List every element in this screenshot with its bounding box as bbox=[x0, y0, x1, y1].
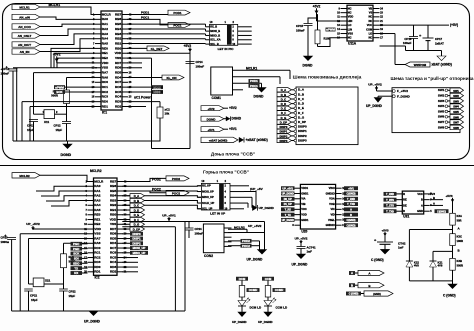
svg-text:AN_IIN: AN_IIN bbox=[20, 50, 30, 54]
svg-text:RC0: RC0 bbox=[94, 246, 100, 250]
svg-text:SCL_B: SCL_B bbox=[210, 42, 219, 46]
svg-text:1мF: 1мF bbox=[307, 250, 313, 254]
svg-text:UP_+5V1: UP_+5V1 bbox=[282, 187, 293, 190]
svg-text:SCL_UP: SCL_UP bbox=[202, 207, 213, 211]
svg-text:C(GND): C(GND) bbox=[347, 193, 356, 196]
svg-text:VSS: VSS bbox=[115, 56, 121, 60]
svg-text:RD4: RD4 bbox=[110, 241, 116, 245]
svg-text:15pF: 15pF bbox=[31, 298, 38, 302]
svg-text:RC2: RC2 bbox=[94, 255, 100, 259]
svg-text:SW3: SW3 bbox=[438, 99, 445, 103]
svg-text:VOA: VOA bbox=[329, 197, 335, 201]
svg-text:W05POM: W05POM bbox=[414, 63, 427, 67]
svg-text:RC7: RC7 bbox=[110, 246, 116, 250]
svg-text:SW8: SW8 bbox=[453, 126, 459, 130]
svg-text:DISP3: DISP3 bbox=[298, 138, 307, 142]
svg-text:D_B: D_B bbox=[298, 92, 305, 96]
svg-text:RB2: RB2 bbox=[115, 37, 121, 41]
svg-text:RE0: RE0 bbox=[94, 213, 100, 217]
svg-text:IC1: IC1 bbox=[102, 110, 107, 114]
svg-text:+xBAT (xGND): +xBAT (xGND) bbox=[246, 138, 268, 142]
svg-text:LIN: LIN bbox=[348, 27, 352, 31]
svg-text:300R: 300R bbox=[457, 264, 464, 268]
svg-text:RB4: RB4 bbox=[115, 27, 121, 31]
svg-text:PGC: PGC bbox=[73, 242, 79, 246]
svg-text:NC: NC bbox=[368, 15, 372, 19]
svg-text:C(GND): C(GND) bbox=[347, 219, 356, 222]
svg-text:B: B bbox=[433, 196, 435, 200]
svg-text:15pF: 15pF bbox=[56, 128, 63, 132]
svg-text:RA0: RA0 bbox=[102, 17, 108, 21]
svg-text:AN_IOUT: AN_IOUT bbox=[18, 43, 31, 47]
svg-text:VIA: VIA bbox=[301, 197, 305, 201]
svg-text:(GND): (GND) bbox=[373, 292, 381, 296]
svg-text:RC6: RC6 bbox=[115, 85, 121, 89]
svg-text:RA1: RA1 bbox=[102, 22, 108, 26]
svg-text:DISP1: DISP1 bbox=[280, 130, 288, 134]
svg-text:SW4: SW4 bbox=[453, 105, 459, 109]
svg-text:15pF: 15pF bbox=[69, 294, 76, 298]
svg-text:POD1: POD1 bbox=[173, 11, 181, 15]
svg-text:RC0: RC0 bbox=[102, 80, 108, 84]
svg-text:DGND: DGND bbox=[232, 117, 242, 121]
svg-text:POC2: POC2 bbox=[242, 244, 250, 248]
svg-text:VDD: VDD bbox=[110, 217, 117, 221]
svg-text:CP22: CP22 bbox=[69, 290, 77, 294]
svg-text:CON2: CON2 bbox=[204, 254, 213, 258]
svg-text:CCM LD: CCM LD bbox=[276, 306, 288, 310]
svg-text:RE1: RE1 bbox=[94, 217, 100, 221]
svg-text:RD0: RD0 bbox=[94, 265, 100, 269]
svg-text:D: D bbox=[403, 209, 405, 213]
svg-text:D_C: D_C bbox=[298, 97, 305, 101]
svg-text:+5V3: +5V3 bbox=[428, 192, 435, 196]
svg-text:GND2O: GND2O bbox=[326, 223, 335, 227]
svg-text:VSS: VSS bbox=[110, 222, 116, 226]
svg-text:D_A: D_A bbox=[281, 88, 286, 92]
svg-text:D_C: D_C bbox=[134, 204, 139, 208]
svg-text:RA5: RA5 bbox=[102, 41, 108, 45]
svg-text:X21: X21 bbox=[45, 279, 51, 283]
svg-text:UP_DGND: UP_DGND bbox=[232, 320, 247, 324]
svg-text:UP_+5V2: UP_+5V2 bbox=[248, 224, 262, 228]
svg-text:POD1: POD1 bbox=[141, 11, 149, 15]
svg-text:RC3: RC3 bbox=[102, 95, 108, 99]
svg-text:DISP1: DISP1 bbox=[132, 237, 141, 241]
svg-text:SW7: SW7 bbox=[453, 121, 459, 125]
svg-text:SW4: SW4 bbox=[438, 104, 445, 108]
svg-text:RB3: RB3 bbox=[110, 198, 116, 202]
svg-text:RB3: RB3 bbox=[115, 32, 121, 36]
svg-text:UP_DGND: UP_DGND bbox=[366, 104, 383, 108]
svg-text:RB0: RB0 bbox=[110, 213, 116, 217]
svg-text:VDD: VDD bbox=[348, 15, 354, 19]
svg-text:DCMR: DCMR bbox=[249, 288, 258, 292]
svg-text:RD5: RD5 bbox=[110, 236, 116, 240]
svg-text:RA4: RA4 bbox=[102, 37, 108, 41]
svg-text:SW2: SW2 bbox=[438, 94, 445, 98]
svg-text:RD1: RD1 bbox=[102, 104, 108, 108]
svg-text:+5V1: +5V1 bbox=[207, 128, 214, 132]
svg-text:K3B: K3B bbox=[457, 259, 462, 263]
svg-text:UP_+5V2: UP_+5V2 bbox=[295, 236, 308, 240]
svg-text:B: B bbox=[351, 283, 353, 287]
svg-text:CP16: CP16 bbox=[404, 37, 412, 41]
svg-text:RD2: RD2 bbox=[110, 270, 116, 274]
svg-text:100мF: 100мF bbox=[403, 41, 412, 45]
svg-text:MCLR1: MCLR1 bbox=[19, 6, 30, 10]
svg-text:SW3: SW3 bbox=[453, 99, 459, 103]
svg-text:POD2: POD2 bbox=[152, 178, 161, 182]
svg-text:RB6: RB6 bbox=[110, 184, 116, 188]
svg-text:CP15: CP15 bbox=[296, 24, 304, 28]
svg-text:T_TX: T_TX bbox=[285, 214, 291, 217]
svg-text:F_DGND: F_DGND bbox=[397, 94, 411, 98]
svg-text:RC1: RC1 bbox=[94, 251, 100, 255]
svg-text:RA3: RA3 bbox=[94, 198, 100, 202]
svg-text:RC1: RC1 bbox=[102, 85, 108, 89]
svg-text:SW1: SW1 bbox=[438, 88, 445, 92]
svg-text:Доња плоча "ССВ": Доња плоча "ССВ" bbox=[211, 152, 255, 157]
svg-text:RB7: RB7 bbox=[115, 12, 121, 16]
svg-text:B: B bbox=[421, 198, 423, 202]
svg-text:+5V1: +5V1 bbox=[229, 127, 237, 131]
svg-text:K3A: K3A bbox=[457, 214, 462, 218]
svg-text:VISO: VISO bbox=[329, 186, 335, 190]
svg-text:D_E: D_E bbox=[134, 213, 139, 217]
svg-text:RE1: RE1 bbox=[102, 51, 108, 55]
svg-text:COM: COM bbox=[366, 27, 372, 31]
svg-text:RB1: RB1 bbox=[110, 208, 116, 212]
svg-text:D_B: D_B bbox=[281, 93, 286, 97]
svg-text:SW7: SW7 bbox=[438, 120, 445, 124]
svg-text:VSEL: VSEL bbox=[328, 218, 335, 222]
svg-text:BCK: BCK bbox=[56, 90, 63, 94]
svg-text:POC1: POC1 bbox=[250, 84, 258, 88]
svg-text:RC5: RC5 bbox=[115, 90, 121, 94]
svg-text:RE2: RE2 bbox=[102, 56, 108, 60]
svg-text:4V8: 4V8 bbox=[438, 264, 443, 268]
svg-text:NC: NC bbox=[368, 36, 372, 40]
svg-text:uC1 Power: uC1 Power bbox=[134, 96, 152, 100]
svg-text:UP_DGND: UP_DGND bbox=[84, 320, 101, 324]
svg-text:D_G: D_G bbox=[134, 223, 140, 227]
svg-text:VCC: VCC bbox=[367, 23, 373, 27]
svg-text:RC4: RC4 bbox=[115, 95, 121, 99]
svg-text:DISP3: DISP3 bbox=[280, 139, 288, 143]
svg-text:CP12: CP12 bbox=[54, 124, 62, 128]
svg-text:RD4: RD4 bbox=[115, 75, 121, 79]
svg-text:RB5: RB5 bbox=[115, 22, 121, 26]
svg-text:D_G: D_G bbox=[298, 115, 305, 119]
svg-text:D_D: D_D bbox=[134, 208, 139, 212]
svg-text:CCMR: CCMR bbox=[275, 288, 284, 292]
svg-text:MCLR2: MCLR2 bbox=[19, 174, 30, 178]
svg-text:C (GND): C (GND) bbox=[443, 294, 456, 298]
svg-text:RC3: RC3 bbox=[94, 260, 100, 264]
svg-text:SCL_KA: SCL_KA bbox=[210, 38, 221, 42]
svg-text:+5V1: +5V1 bbox=[348, 187, 354, 190]
svg-text:SW1: SW1 bbox=[453, 89, 459, 93]
svg-text:SW8: SW8 bbox=[438, 125, 445, 129]
svg-text:SW2: SW2 bbox=[453, 94, 459, 98]
svg-text:D_E: D_E bbox=[281, 107, 286, 111]
svg-text:100мF: 100мF bbox=[195, 231, 204, 235]
svg-text:PGD: PGD bbox=[73, 247, 79, 251]
svg-text:100мF: 100мF bbox=[1, 72, 10, 76]
svg-text:LO: LO bbox=[369, 31, 373, 35]
svg-text:UP_DGND: UP_DGND bbox=[292, 263, 309, 267]
svg-text:K3C: K3C bbox=[457, 234, 462, 238]
svg-text:1мF: 1мF bbox=[398, 246, 404, 250]
svg-text:1000м: 1000м bbox=[1, 240, 9, 244]
svg-text:D_G: D_G bbox=[281, 116, 287, 120]
svg-text:DGND: DGND bbox=[207, 117, 217, 121]
svg-text:F_+5V2: F_+5V2 bbox=[397, 89, 408, 93]
svg-text:D_D: D_D bbox=[298, 102, 305, 106]
svg-text:DISP1: DISP1 bbox=[298, 129, 307, 133]
svg-text:RD3: RD3 bbox=[115, 100, 121, 104]
svg-text:Шема повезивања дисплеја: Шема повезивања дисплеја bbox=[293, 75, 362, 81]
svg-text:DISP0: DISP0 bbox=[280, 125, 288, 129]
svg-text:RA1: RA1 bbox=[94, 189, 100, 193]
svg-text:AN_uIN: AN_uIN bbox=[19, 16, 30, 20]
svg-text:100мF: 100мF bbox=[196, 64, 205, 68]
svg-text:DISP2: DISP2 bbox=[132, 241, 141, 245]
svg-text:D_A: D_A bbox=[298, 88, 305, 92]
svg-text:CP14: CP14 bbox=[196, 60, 204, 64]
svg-text:T_TXD: T_TXD bbox=[386, 210, 394, 213]
svg-text:GND1: GND1 bbox=[301, 191, 309, 195]
svg-text:100мF: 100мF bbox=[296, 28, 305, 32]
svg-text:MCLR: MCLR bbox=[102, 12, 112, 16]
svg-text:POC1: POC1 bbox=[141, 16, 149, 20]
svg-text:D_DP: D_DP bbox=[298, 120, 306, 124]
svg-text:RA7: RA7 bbox=[94, 236, 100, 240]
svg-text:VSS: VSS bbox=[94, 232, 100, 236]
svg-text:KL_DET: KL_DET bbox=[151, 47, 163, 51]
svg-text:A: A bbox=[433, 202, 435, 206]
svg-text:RA0: RA0 bbox=[94, 184, 100, 188]
svg-text:LET IN UP: LET IN UP bbox=[210, 212, 225, 216]
svg-text:MCLR: MCLR bbox=[94, 179, 104, 183]
svg-text:MCLR1: MCLR1 bbox=[246, 66, 257, 70]
svg-text:DISP0: DISP0 bbox=[132, 232, 141, 236]
svg-text:VIB: VIB bbox=[301, 202, 305, 206]
svg-text:D_C: D_C bbox=[281, 97, 286, 101]
svg-text:T_CTS: T_CTS bbox=[386, 205, 394, 208]
svg-text:UP_DGND: UP_DGND bbox=[247, 257, 264, 261]
svg-text:SW5: SW5 bbox=[453, 110, 459, 114]
svg-text:SCK: SCK bbox=[73, 252, 80, 256]
svg-text:RE0: RE0 bbox=[102, 46, 108, 50]
svg-text:COM1: COM1 bbox=[212, 96, 222, 100]
svg-text:UP_DGND: UP_DGND bbox=[282, 219, 294, 222]
svg-text:RA2: RA2 bbox=[102, 27, 108, 31]
svg-text:T_RXD: T_RXD bbox=[386, 193, 394, 196]
svg-text:VDD: VDD bbox=[94, 227, 101, 231]
svg-text:UP_+5V1: UP_+5V1 bbox=[162, 213, 176, 217]
svg-text:D_A: D_A bbox=[134, 194, 139, 198]
svg-text:GND: GND bbox=[417, 209, 423, 213]
svg-text:RA3: RA3 bbox=[102, 32, 108, 36]
svg-text:KL_ON: KL_ON bbox=[166, 76, 176, 80]
svg-text:LO: LO bbox=[348, 23, 352, 27]
svg-text:MCLR2: MCLR2 bbox=[234, 225, 245, 229]
svg-text:T_TXD: T_TXD bbox=[347, 203, 355, 206]
svg-text:C (GND): C (GND) bbox=[371, 258, 384, 262]
svg-text:D_E: D_E bbox=[298, 106, 304, 110]
svg-text:uPWM: uPWM bbox=[55, 85, 64, 89]
svg-text:UP_+5V2: UP_+5V2 bbox=[368, 82, 382, 86]
svg-text:MOSI_UP: MOSI_UP bbox=[202, 189, 214, 193]
svg-text:MOSI_UP: MOSI_UP bbox=[133, 246, 146, 250]
svg-text:RA2: RA2 bbox=[94, 194, 100, 198]
svg-text:UP_DGND: UP_DGND bbox=[258, 320, 273, 324]
svg-text:DISP2: DISP2 bbox=[298, 134, 307, 138]
svg-text:POD2: POD2 bbox=[172, 177, 180, 181]
svg-text:RD2: RD2 bbox=[115, 104, 121, 108]
svg-text:DGND: DGND bbox=[303, 64, 313, 68]
svg-text:AN_CCO: AN_CCO bbox=[18, 25, 31, 29]
svg-text:C (GND): C (GND) bbox=[349, 293, 359, 296]
svg-text:CP21: CP21 bbox=[30, 294, 38, 298]
svg-text:VOD: VOD bbox=[301, 213, 307, 217]
svg-text:T_RTS: T_RTS bbox=[386, 199, 394, 202]
svg-text:RD1: RD1 bbox=[94, 270, 100, 274]
svg-text:RC5: RC5 bbox=[110, 255, 116, 259]
svg-text:AN_CNLT: AN_CNLT bbox=[18, 34, 32, 38]
svg-text:VID: VID bbox=[330, 213, 334, 217]
svg-text:RC7: RC7 bbox=[115, 80, 121, 84]
svg-text:C(GND): C(GND) bbox=[347, 224, 356, 227]
svg-text:RC2: RC2 bbox=[102, 90, 108, 94]
svg-text:uPWM: uPWM bbox=[326, 28, 335, 32]
svg-text:POD2: POD2 bbox=[242, 239, 250, 243]
svg-text:GND2O: GND2O bbox=[326, 191, 335, 195]
svg-text:+CP13: +CP13 bbox=[1, 67, 10, 71]
svg-text:T_RXD: T_RXD bbox=[347, 198, 355, 201]
svg-text:UP_DGND: UP_DGND bbox=[259, 206, 275, 210]
svg-text:RD7: RD7 bbox=[110, 227, 116, 231]
svg-text:+5V2: +5V2 bbox=[229, 106, 237, 110]
svg-text:NC: NC bbox=[348, 6, 352, 10]
svg-text:DCM: DCM bbox=[239, 277, 246, 281]
svg-text:RB5: RB5 bbox=[110, 189, 116, 193]
svg-text:RE: RE bbox=[403, 198, 407, 202]
svg-text:D_DP: D_DP bbox=[133, 227, 140, 231]
svg-text:DISP0: DISP0 bbox=[298, 125, 307, 129]
svg-text:MISO_B: MISO_B bbox=[210, 33, 220, 37]
svg-text:NC: NC bbox=[348, 36, 352, 40]
svg-text:RA6: RA6 bbox=[94, 241, 100, 245]
svg-text:U20: U20 bbox=[301, 229, 307, 233]
svg-text:TX: TX bbox=[74, 266, 78, 270]
svg-text:VOB: VOB bbox=[329, 202, 335, 206]
svg-text:X11: X11 bbox=[44, 120, 49, 124]
svg-text:POD1: POD1 bbox=[250, 79, 258, 83]
svg-text:RC4: RC4 bbox=[110, 260, 116, 264]
svg-text:+5V2: +5V2 bbox=[207, 107, 214, 111]
svg-text:VB: VB bbox=[369, 6, 373, 10]
svg-text:LET IN PIC: LET IN PIC bbox=[218, 47, 235, 51]
svg-text:D_F: D_F bbox=[281, 111, 286, 115]
svg-text:VDD1: VDD1 bbox=[301, 186, 308, 190]
svg-text:T_RX: T_RX bbox=[285, 209, 292, 212]
svg-text:VSS: VSS bbox=[102, 66, 108, 70]
svg-text:IC2: IC2 bbox=[95, 276, 100, 280]
svg-text:VIC: VIC bbox=[330, 207, 334, 211]
svg-text:DGND: DGND bbox=[61, 153, 72, 157]
svg-text:CP17: CP17 bbox=[435, 37, 443, 41]
svg-text:10k: 10k bbox=[165, 112, 170, 116]
svg-text:RX_B: RX_B bbox=[210, 25, 217, 29]
svg-text:RD6: RD6 bbox=[115, 66, 121, 70]
svg-text:(+5V): (+5V) bbox=[450, 23, 458, 27]
svg-text:+5V3: +5V3 bbox=[381, 228, 388, 232]
svg-text:MOSI_B: MOSI_B bbox=[210, 29, 220, 33]
svg-text:DGND: DGND bbox=[254, 95, 264, 99]
svg-text:RD3: RD3 bbox=[110, 265, 116, 269]
svg-text:UP_+5V2: UP_+5V2 bbox=[26, 222, 40, 226]
svg-text:VCC: VCC bbox=[417, 192, 423, 196]
svg-text:MISO_UP: MISO_UP bbox=[202, 195, 214, 199]
svg-text:SW6: SW6 bbox=[453, 115, 459, 119]
svg-text:U31: U31 bbox=[403, 214, 409, 218]
svg-text:RC6: RC6 bbox=[110, 251, 116, 255]
svg-text:xBAT (xGND): xBAT (xGND) bbox=[432, 63, 452, 67]
svg-text:RD0: RD0 bbox=[102, 100, 108, 104]
svg-text:30R: 30R bbox=[457, 218, 462, 222]
svg-text:CCM: CCM bbox=[265, 277, 272, 281]
svg-text:D_DP: D_DP bbox=[280, 120, 287, 124]
svg-text:D_D: D_D bbox=[281, 102, 286, 106]
svg-text:+5V2: +5V2 bbox=[313, 5, 321, 9]
svg-text:D0_UP: D0_UP bbox=[284, 198, 292, 201]
svg-text:R10B: R10B bbox=[324, 37, 331, 41]
svg-text:VDD: VDD bbox=[102, 61, 109, 65]
svg-text:(UP_+5V: (UP_+5V bbox=[250, 187, 264, 191]
svg-text:RA5: RA5 bbox=[94, 208, 100, 212]
svg-text:R: R bbox=[403, 192, 405, 196]
svg-text:B: B bbox=[350, 214, 352, 217]
svg-text:RB1: RB1 bbox=[115, 41, 121, 45]
svg-text:U11A: U11A bbox=[348, 41, 357, 45]
svg-text:VSS: VSS bbox=[348, 31, 353, 35]
svg-text:GND1: GND1 bbox=[301, 218, 309, 222]
svg-text:MISO_UP: MISO_UP bbox=[133, 251, 146, 255]
svg-text:RX_UP: RX_UP bbox=[202, 184, 211, 188]
svg-text:C(GND): C(GND) bbox=[437, 210, 446, 213]
svg-text:+xBAT (xGND): +xBAT (xGND) bbox=[209, 139, 228, 143]
svg-text:4V8: 4V8 bbox=[414, 264, 419, 268]
svg-text:RA6: RA6 bbox=[102, 75, 108, 79]
svg-text:MCLR2: MCLR2 bbox=[90, 169, 102, 173]
svg-text:2xBAT: 2xBAT bbox=[435, 42, 444, 46]
svg-text:SCLK_UP: SCLK_UP bbox=[202, 201, 214, 205]
svg-text:D_B: D_B bbox=[134, 199, 139, 203]
svg-text:Шема тастера и "pull-up" отпор: Шема тастера и "pull-up" отпорника bbox=[390, 76, 473, 81]
svg-text:DISP2: DISP2 bbox=[280, 134, 288, 138]
svg-text:RA7: RA7 bbox=[102, 71, 108, 75]
svg-text:HIN: HIN bbox=[348, 19, 353, 23]
svg-text:SW6: SW6 bbox=[438, 115, 445, 119]
svg-text:D1_UP: D1_UP bbox=[284, 203, 292, 206]
svg-text:POC2: POC2 bbox=[172, 191, 180, 195]
svg-text:A: A bbox=[351, 271, 353, 275]
svg-text:SDI: SDI bbox=[74, 257, 79, 261]
svg-text:DCM LD: DCM LD bbox=[250, 306, 262, 310]
